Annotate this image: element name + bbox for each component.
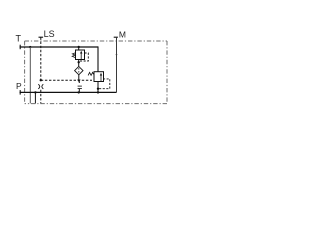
T line <box>20 46 98 48</box>
wire U2 bottom to P line <box>97 81 99 92</box>
M port tick <box>114 36 118 38</box>
node filter-LS junction <box>77 80 80 83</box>
node below U1 <box>78 61 80 63</box>
node U2 pilot junction <box>97 88 99 90</box>
svg-text:LS: LS <box>44 29 55 39</box>
valve U2 spring <box>88 72 94 75</box>
node U2-P junction <box>97 91 99 93</box>
LS port vertical dashed line <box>40 38 42 83</box>
wire U1 to filter <box>78 60 80 67</box>
node on M line <box>116 54 118 56</box>
node P-drop junction <box>34 91 36 93</box>
relief valve U1 pilot dashed line <box>79 53 88 61</box>
LS orifice )( <box>38 84 40 89</box>
wire T drop to lower border <box>29 47 31 103</box>
valve U2 pilot dashed line <box>98 79 110 89</box>
LS dashed below orifice crossing P to border <box>40 90 42 104</box>
LS port tick <box>39 36 44 38</box>
node on P line below O2 <box>78 91 80 93</box>
wire orifice O2 to P line <box>78 89 80 93</box>
orifice O2 double bar <box>78 85 82 87</box>
svg-text:P: P <box>16 81 22 91</box>
svg-text:M: M <box>119 29 126 39</box>
relief valve U1 spring <box>72 53 75 58</box>
T port tick <box>19 45 21 50</box>
wire P drop to lower border <box>34 92 36 103</box>
wire T corner down to valve U2 <box>97 46 99 72</box>
P port tick <box>19 90 21 95</box>
wire stub below LS junction <box>78 81 80 83</box>
node relief valve top junction <box>78 46 80 48</box>
node LS junction <box>40 79 42 81</box>
relief valve U1 arrow <box>80 53 82 60</box>
wire T line to relief valve U1 <box>78 47 80 50</box>
enclosure dash-dot border <box>25 41 167 104</box>
node T-drop junction <box>29 46 31 48</box>
svg-text:T: T <box>16 34 22 44</box>
M line vertical and corner to P line <box>116 37 118 92</box>
LS horizontal dashed line <box>41 79 92 81</box>
relief valve U1 body <box>76 50 85 60</box>
valve U2 arrow <box>100 75 102 82</box>
filter F1 diamond <box>75 66 83 74</box>
P line <box>20 91 117 93</box>
wire filter to LS line <box>78 75 80 80</box>
filter F1 dotted element <box>78 68 79 69</box>
valve U2 body <box>94 72 104 82</box>
